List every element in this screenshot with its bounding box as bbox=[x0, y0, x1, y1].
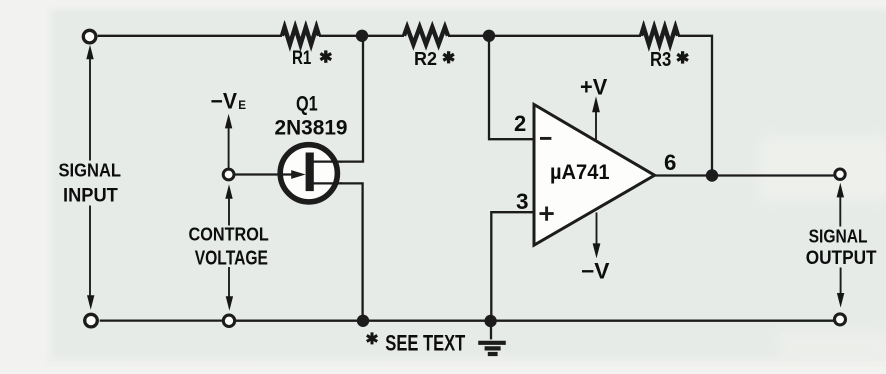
svg-text:R2: R2 bbox=[414, 48, 437, 69]
svg-text:INPUT: INPUT bbox=[63, 184, 118, 206]
svg-text:VOLTAGE: VOLTAGE bbox=[195, 247, 268, 269]
svg-text:R1: R1 bbox=[292, 47, 311, 69]
svg-text:−V: −V bbox=[211, 88, 238, 113]
svg-text:3: 3 bbox=[516, 189, 529, 214]
svg-text:E: E bbox=[238, 99, 246, 112]
svg-text:2N3819: 2N3819 bbox=[275, 116, 348, 139]
svg-text:SEE TEXT: SEE TEXT bbox=[385, 330, 466, 355]
svg-text:OUTPUT: OUTPUT bbox=[806, 247, 877, 269]
svg-text:−V: −V bbox=[581, 258, 610, 283]
svg-text:2: 2 bbox=[514, 111, 526, 136]
svg-text:+V: +V bbox=[580, 74, 608, 99]
svg-text:µA741: µA741 bbox=[550, 161, 610, 184]
svg-text:SIGNAL: SIGNAL bbox=[59, 160, 122, 181]
svg-text:Q1: Q1 bbox=[296, 90, 318, 115]
svg-text:6: 6 bbox=[664, 150, 676, 175]
svg-text:CONTROL: CONTROL bbox=[189, 224, 269, 245]
svg-text:SIGNAL: SIGNAL bbox=[809, 225, 868, 246]
svg-text:R3: R3 bbox=[650, 48, 671, 71]
